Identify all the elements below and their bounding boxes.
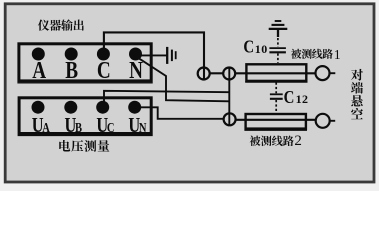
terminal UB bbox=[64, 101, 77, 114]
wire: N terminal to ground symbol bbox=[140, 54, 167, 56]
capacitor C10 plates bbox=[269, 48, 286, 52]
svg-text:C: C bbox=[243, 37, 254, 56]
label 仪器输出 (instrument output) bbox=[38, 19, 84, 30]
dashed lead ground to C10 bbox=[277, 38, 279, 47]
label C12 bbox=[284, 88, 309, 107]
label 电压测量 (voltage measurement) bbox=[59, 140, 109, 152]
connector circle P1 bbox=[198, 68, 210, 80]
labels A B C N bbox=[32, 57, 143, 84]
terminal B bbox=[65, 48, 78, 61]
svg-text:A: A bbox=[42, 120, 50, 136]
junction vertical: through P2 down through P3 bbox=[228, 67, 230, 126]
test line 1 rectangle 被测线路1 bbox=[246, 64, 306, 81]
terminal UN bbox=[128, 101, 141, 114]
label C10 bbox=[243, 37, 267, 56]
test line 1 bottom shade bbox=[245, 81, 307, 83]
dashed lead line1 to C12 bbox=[275, 83, 277, 94]
svg-text:C: C bbox=[97, 57, 111, 84]
wire: through test line 2 bbox=[236, 119, 315, 121]
connector circle P3 bbox=[224, 113, 236, 125]
wire: N diagonal down, across to junction vertical bbox=[139, 58, 230, 101]
right stub of line 1 bbox=[330, 72, 336, 74]
ground symbol (right of N) bbox=[167, 47, 176, 64]
instrument output box bbox=[19, 44, 151, 81]
svg-text:N: N bbox=[139, 120, 147, 136]
connector circle P2 bbox=[223, 68, 235, 80]
svg-text:2: 2 bbox=[294, 133, 302, 149]
terminal A bbox=[32, 48, 45, 61]
wire: C terminal up, right, down through connector circle P1 bbox=[104, 32, 204, 80]
capacitor C12 plates bbox=[270, 94, 283, 99]
svg-text:1: 1 bbox=[334, 47, 341, 62]
svg-text:10: 10 bbox=[255, 42, 268, 56]
right end circle of line 1 bbox=[316, 66, 330, 80]
test line 2 bottom shade bbox=[244, 129, 307, 131]
terminal N bbox=[129, 48, 142, 61]
label 被测线路2 bbox=[250, 133, 302, 149]
right end circle of line 2 bbox=[316, 114, 330, 128]
terminal UA bbox=[32, 101, 45, 114]
wire: through test line 1 bbox=[236, 72, 316, 74]
wire: UN terminal right, down, right to connector circle P3 bbox=[140, 107, 223, 119]
box2 bottom shade bbox=[18, 135, 153, 137]
svg-text:C: C bbox=[107, 120, 115, 136]
svg-text:C: C bbox=[284, 88, 295, 107]
labels UA UB UC UN bbox=[32, 114, 147, 137]
gray panel with dark frame border bbox=[5, 4, 374, 182]
right stub of line 2 bbox=[330, 120, 336, 122]
dashed lead C12 to line 2 bbox=[275, 100, 277, 113]
svg-text:N: N bbox=[129, 57, 143, 84]
wire: UC terminal up, right to junction vertical bbox=[104, 91, 229, 102]
label 对端悬空 (far end floating), vertical bbox=[351, 69, 363, 119]
svg-text:A: A bbox=[32, 57, 46, 84]
svg-text:B: B bbox=[75, 120, 82, 136]
terminal UC bbox=[96, 101, 109, 114]
earth ground (top, inverted) bbox=[269, 21, 288, 37]
box1 bottom shade bbox=[17, 82, 152, 84]
svg-text:12: 12 bbox=[296, 92, 309, 106]
terminal C bbox=[97, 48, 110, 61]
voltage measurement box bbox=[19, 98, 151, 134]
dashed lead C10 to line 1 bbox=[277, 54, 279, 64]
svg-text:B: B bbox=[65, 57, 78, 84]
outer light background bbox=[0, 0, 379, 191]
wire: P1-P2 connector link bbox=[210, 72, 223, 74]
test line 2 rectangle 被测线路2 bbox=[246, 114, 306, 129]
label 被测线路1 bbox=[291, 47, 341, 62]
